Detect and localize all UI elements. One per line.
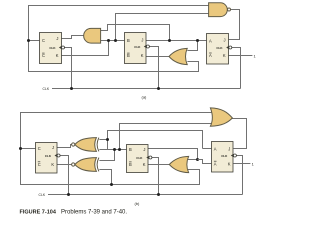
junction dot node B at G5 branch [113, 148, 116, 151]
wire: CLK rail circuit b [48, 194, 243, 196]
junction dot at G6 upper input branch [196, 158, 199, 161]
svg-text:J: J [143, 147, 145, 152]
OR gate G7 (right-facing) [210, 108, 232, 126]
wire: FF C output stub to left vertical [29, 40, 40, 42]
wire: FF C clock riser circuit b [60, 156, 68, 195]
wire: FF C clock riser [64, 48, 71, 89]
svg-text:C: C [42, 53, 45, 58]
svg-text:FIGURE 7-104: FIGURE 7-104 [20, 210, 57, 216]
flip-flop B (circuit b) [127, 145, 152, 173]
svg-text:A: A [214, 147, 217, 152]
NAND gate G3 (right-facing) [209, 3, 228, 17]
flip-flop A (circuit a) [207, 34, 232, 65]
svg-text:J: J [52, 145, 54, 150]
flip-flop A (circuit b) [212, 142, 237, 173]
svg-text:K: K [228, 161, 231, 166]
wire: CLK rail circuit a [52, 88, 241, 90]
svg-text:CLK: CLK [39, 193, 46, 197]
svg-text:(a): (a) [142, 94, 148, 99]
svg-text:CLK: CLK [221, 154, 228, 158]
wire: XNOR G4 upper input stub [99, 139, 107, 141]
svg-text:A: A [214, 161, 217, 166]
svg-text:1: 1 [252, 161, 255, 166]
wire: node B riser to NAND G3 lower input rail [116, 14, 209, 41]
wire: FF A output stub from node A rail [203, 148, 212, 150]
OR gate G2 (left-facing) [169, 48, 187, 64]
wire: OR G6 upper input stub [187, 159, 197, 161]
wire: FF A clock riser [232, 48, 241, 89]
svg-text:CLK: CLK [136, 156, 143, 160]
wire: node C bottom rail to OR G2 lower input [29, 41, 199, 72]
wire: OR G2 upper input riser from node A [187, 41, 197, 51]
svg-text:J: J [228, 146, 230, 151]
junction dot G4 upper input [106, 138, 109, 141]
junction dot node B at G7 branch [118, 148, 121, 151]
XNOR gate G5 (left-facing with bubble) [72, 158, 99, 172]
flip-flop C (circuit a) [40, 33, 65, 64]
svg-text:J: J [56, 36, 58, 41]
wire: OR G7 output to FF A J-input [232, 119, 247, 149]
wire: XNOR G5 upper input branch from node B [99, 150, 114, 161]
svg-text:A: A [209, 53, 212, 58]
wire: NAND G3 output to FF A J-input [229, 10, 240, 40]
wire: FF A K-input stub tied high circuit b [233, 163, 250, 165]
wire: FF A K-input stub tied high [229, 55, 253, 57]
wire: OR G2 output to FF B K-input [146, 56, 169, 58]
wire: node B rail from AND G1 lower input to FF B output [100, 40, 125, 42]
junction dot CLK at FF C circuit b [67, 193, 70, 196]
junction dot node C rail at G5 branch [110, 183, 113, 186]
svg-text:J: J [141, 37, 143, 42]
junction dot CLK at FF B circuit b [157, 193, 160, 196]
junction dot node A at G1 riser [168, 39, 171, 42]
flip-flop C (circuit b) [36, 143, 61, 174]
junction dot CLK at FF B [157, 87, 160, 90]
wire: node B riser to OR G7 lower input rail [120, 124, 214, 150]
wire: FF B J-input drop to G6 junction [148, 149, 198, 160]
wire: FF B clock riser circuit b [152, 158, 159, 195]
junction dot node A at OR riser [196, 39, 199, 42]
wire: node C bottom rail to OR G6 lower input [21, 149, 200, 185]
wire: node C top rail to NAND G3 top input [29, 6, 209, 41]
svg-text:A: A [209, 39, 212, 44]
svg-text:Problems 7-39 and 7-40.: Problems 7-39 and 7-40. [61, 210, 127, 216]
NAND G3 output bubble [228, 8, 231, 11]
flip-flop B (circuit a) [125, 33, 150, 64]
svg-text:(b): (b) [135, 201, 141, 206]
wire: node B row XNOR G4 lower input to FF B output [99, 149, 126, 151]
node C junction dot [27, 39, 30, 42]
junction dot CLK at FF C [70, 87, 73, 90]
svg-text:B: B [127, 38, 130, 43]
svg-text:CLK: CLK [45, 154, 52, 158]
wire: FF C output stub circuit b [21, 148, 36, 150]
svg-text:K: K [223, 53, 226, 58]
svg-text:B: B [129, 162, 132, 167]
svg-text:K: K [143, 162, 146, 167]
wire: AND G1 output to FF C J-input [61, 36, 83, 39]
svg-text:CLK: CLK [43, 87, 50, 91]
AND gate G1 (left-facing) [84, 28, 101, 43]
svg-text:K: K [141, 53, 144, 58]
svg-text:CLK: CLK [216, 46, 223, 50]
junction dot node B at NAND branch [114, 39, 117, 42]
wire: FF C K-input branch from node B rail [61, 41, 108, 56]
svg-text:1: 1 [254, 53, 257, 58]
wire: branch to FF A complement output [198, 160, 212, 164]
svg-text:K: K [51, 162, 54, 167]
wire: XNOR G5 lower input riser to node C bottom rail [99, 170, 111, 185]
junction dot node B at K branch [107, 39, 110, 42]
OR gate G6 (left-facing) [169, 156, 188, 172]
wire: FF B clock riser [150, 47, 159, 89]
svg-text:B: B [127, 53, 130, 58]
svg-text:J: J [224, 37, 226, 42]
svg-text:C: C [38, 146, 41, 151]
svg-text:C: C [38, 162, 41, 167]
wire: XNOR G5 output to FF C K-input [57, 164, 72, 166]
svg-text:CLK: CLK [49, 46, 56, 50]
svg-text:CLK: CLK [134, 45, 141, 49]
wire: AND G1 upper input from node A via top jog rail [100, 25, 169, 41]
wire: FF A clock riser circuit b [236, 156, 242, 195]
wire: node A rail down across node B row [108, 131, 203, 150]
wire: OR G6 output to FF B K-input [148, 164, 169, 166]
node C junction dot circuit b [19, 147, 22, 150]
wire: node A row FF B J-input to FF A output [146, 40, 207, 42]
svg-text:B: B [129, 147, 132, 152]
svg-text:C: C [42, 38, 45, 43]
svg-text:K: K [56, 53, 59, 58]
wire: XNOR G4 output to FF C J-input [57, 145, 72, 148]
XNOR gate G4 (left-facing with bubble) [72, 138, 99, 152]
wire: node C top rail to OR G7 upper input [21, 113, 213, 149]
